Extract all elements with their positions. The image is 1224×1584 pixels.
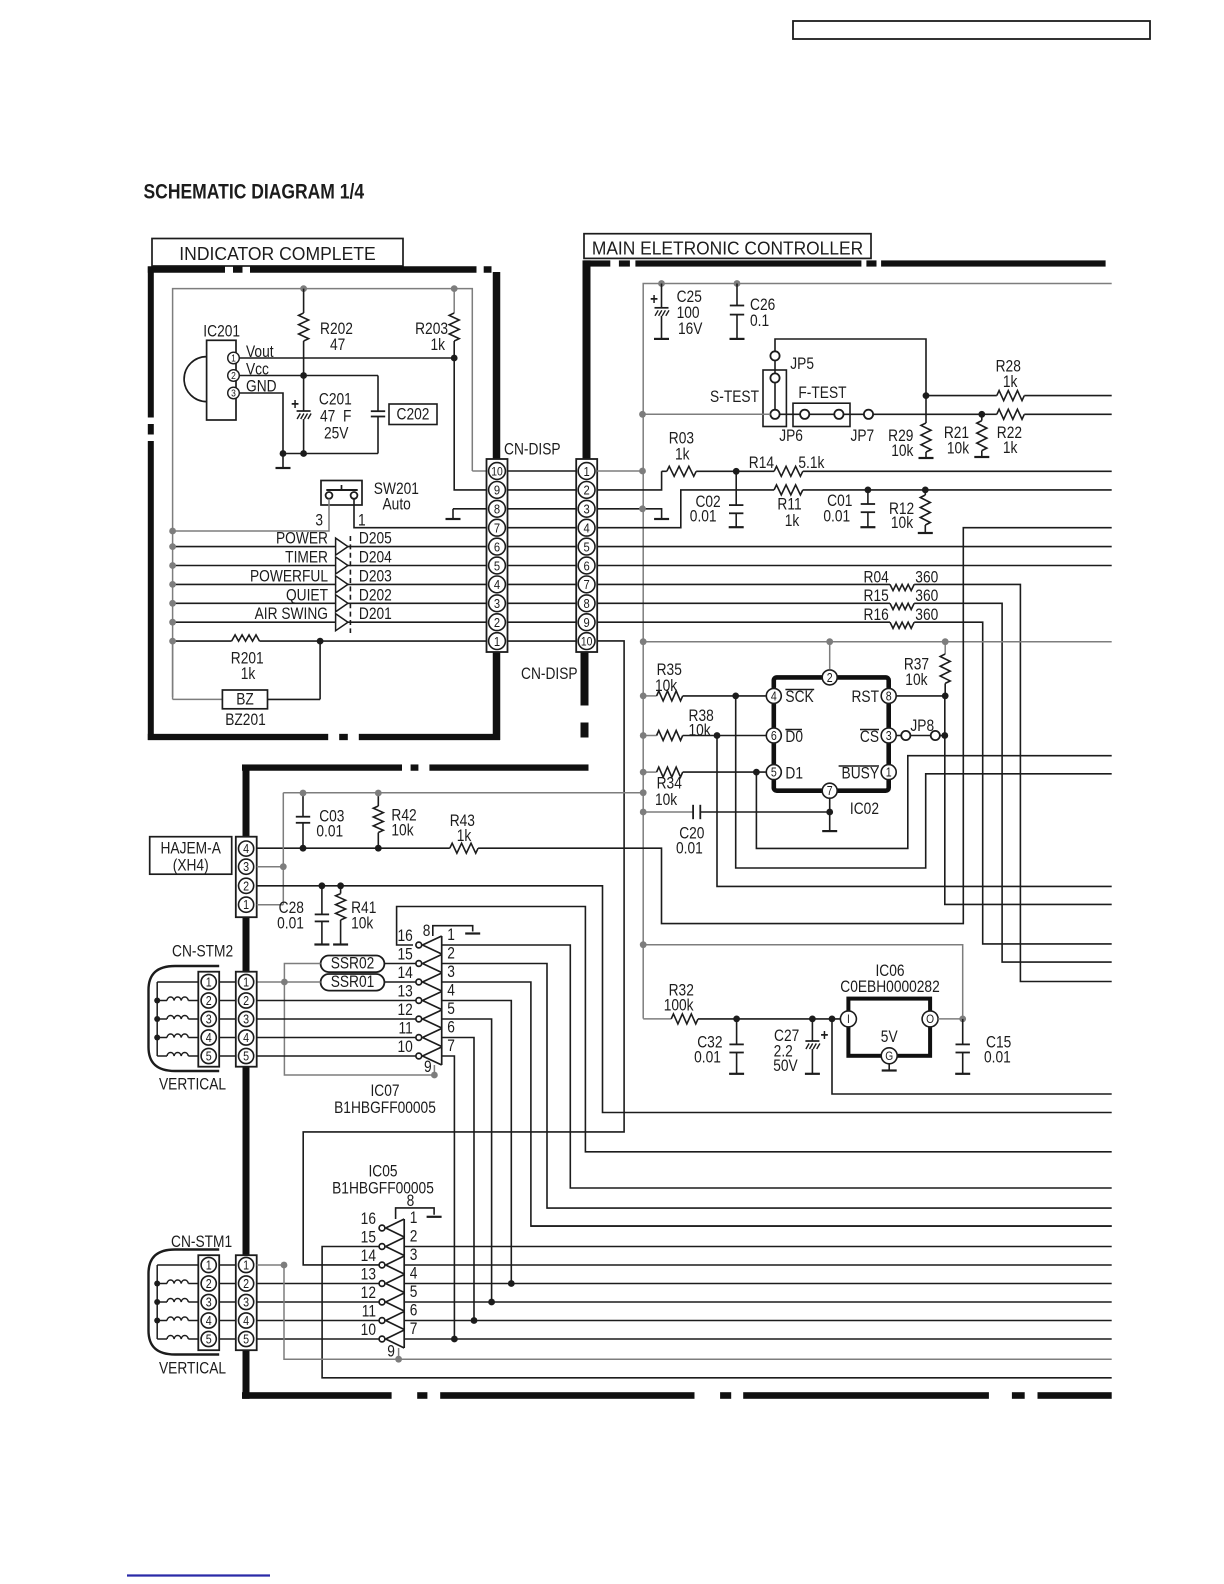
IC IC02 body	[774, 677, 889, 790]
svg-text:C202: C202	[397, 405, 430, 423]
junction dot grey bus SW201 row	[169, 528, 176, 535]
svg-text:10k: 10k	[891, 514, 914, 532]
svg-text:AIR SWING: AIR SWING	[255, 605, 328, 623]
wire SSR01 to IC07 pin14	[384, 981, 416, 983]
svg-text:5V: 5V	[881, 1028, 898, 1046]
HAJEM-A pin 4	[239, 841, 254, 856]
svg-text:2: 2	[243, 1277, 249, 1291]
jumper JP7	[864, 410, 873, 419]
svg-text:D205: D205	[359, 530, 392, 548]
CN-DISP right pin 9	[578, 614, 595, 631]
junction dot grey bus IC02 pin2	[826, 638, 833, 645]
grey wire SSR01 left / CN-STM2 pin1 row	[257, 981, 321, 983]
capacitor C15	[962, 1019, 964, 1045]
INDICATOR boundary left bar	[148, 267, 154, 418]
IC07 output 2 wire	[442, 964, 1112, 1209]
resistor R203	[453, 289, 455, 313]
svg-text:0.01: 0.01	[823, 508, 850, 526]
svg-text:CN-STM2: CN-STM2	[172, 942, 233, 960]
resistor R35	[643, 695, 656, 697]
svg-text:5: 5	[410, 1283, 418, 1301]
svg-text:CN-DISP: CN-DISP	[521, 665, 578, 683]
svg-text:10k: 10k	[391, 822, 414, 840]
CN-DISP left pin 10	[489, 463, 506, 480]
CN-DISP right pin 6	[578, 557, 595, 574]
CN-STM2 inner pin 3	[201, 1011, 216, 1026]
MAIN ELETRONIC CONTROLLER label box	[584, 234, 871, 259]
svg-text:D0: D0	[785, 728, 803, 746]
junction dot Vcc/R202	[300, 372, 307, 379]
CN-STM2 inner pin 5	[201, 1048, 216, 1063]
coil winding CN-STM1 row	[157, 1338, 167, 1340]
HAJEM-A pin 2	[239, 878, 254, 893]
svg-text:D201: D201	[359, 605, 392, 623]
footer blue line	[127, 1574, 270, 1576]
IC05 output 6 wire	[404, 1320, 1111, 1322]
junction dot IC05 pin9 grey	[395, 1356, 402, 1363]
svg-text:5: 5	[583, 539, 589, 554]
resistor R22	[997, 409, 1024, 419]
junction dot CN-STM2 coil common	[154, 1016, 160, 1022]
svg-text:B1HBGFF00005: B1HBGFF00005	[332, 1179, 434, 1197]
svg-text:MAIN ELETRONIC CONTROLLER: MAIN ELETRONIC CONTROLLER	[592, 238, 863, 259]
svg-text:QUIET: QUIET	[286, 586, 328, 604]
svg-text:3: 3	[315, 511, 323, 529]
wire SSR02 to IC07 pin15	[384, 963, 416, 965]
svg-text:1: 1	[206, 976, 212, 990]
svg-text:BUSY: BUSY	[842, 764, 879, 782]
CN-DISP right pin 1	[578, 463, 595, 480]
svg-text:9: 9	[424, 1058, 432, 1076]
IC201 pin 1	[228, 352, 240, 364]
svg-text:5: 5	[206, 1333, 212, 1347]
wire IC201 pin3 GND down	[239, 393, 283, 468]
svg-text:POWERFUL: POWERFUL	[250, 567, 328, 585]
wire JP5 loop to R28 node	[775, 339, 926, 396]
svg-text:D1: D1	[785, 764, 803, 782]
svg-text:10: 10	[397, 1038, 412, 1056]
svg-text:C0EBH0000282: C0EBH0000282	[840, 978, 939, 996]
junction dot D1 net	[753, 769, 760, 776]
junction dot JP8/CS net	[941, 732, 948, 739]
resistor R15	[597, 602, 890, 604]
wire HAJEM pin4 row / R43 net	[257, 847, 450, 849]
grey wire SSR02 left	[284, 964, 320, 983]
CN-DISP right pin 10	[578, 633, 595, 650]
resistor R16	[597, 621, 890, 623]
grey wire HAJEM ground row	[283, 792, 643, 794]
svg-text:JP5: JP5	[790, 355, 814, 373]
svg-text:7: 7	[827, 784, 833, 798]
coil winding CN-STM1 row	[157, 1301, 167, 1303]
connector CN-DISP (controller side)	[576, 459, 597, 652]
resistor R12	[924, 490, 926, 495]
coil winding CN-STM2 row	[157, 1037, 167, 1039]
junction dot grey vertical pin1 row	[639, 468, 646, 475]
svg-text:13: 13	[397, 982, 412, 1000]
wire D0 net routing	[717, 736, 1112, 887]
capacitor C32	[736, 1019, 738, 1045]
IC02 pin 7	[822, 783, 837, 798]
HAJEM-A pin 1	[239, 897, 254, 912]
svg-text:Auto: Auto	[383, 495, 411, 513]
IC201 pin 2	[228, 370, 240, 382]
svg-text:I: I	[847, 1014, 850, 1027]
svg-text:6: 6	[583, 558, 589, 573]
CN-STM2 border pin 5	[239, 1048, 254, 1063]
IC02 pin 3	[881, 728, 896, 743]
svg-text:1k: 1k	[785, 512, 800, 530]
svg-text:8: 8	[423, 922, 431, 940]
IC07 output 4 wire	[442, 1001, 512, 1284]
svg-text:2: 2	[231, 370, 236, 381]
CN-DISP left pin 5	[489, 557, 506, 574]
svg-text:BZ: BZ	[236, 690, 254, 708]
wire CN-STM1 pin 4 link	[219, 1320, 236, 1322]
svg-text:1k: 1k	[241, 665, 256, 683]
svg-text:3: 3	[583, 502, 589, 517]
svg-text:10k: 10k	[351, 914, 374, 932]
svg-text:9: 9	[494, 483, 500, 498]
wire CN-STM2 pin 5 link	[219, 1055, 236, 1057]
wire IC02 pin2 to grey bus	[829, 642, 831, 670]
wire CN-STM2 pin 1 link	[219, 981, 236, 983]
svg-text:0.01: 0.01	[984, 1048, 1011, 1066]
junction dot GND row left	[280, 450, 287, 457]
svg-text:2: 2	[447, 945, 455, 963]
svg-text:BZ201: BZ201	[225, 711, 266, 729]
junction dot C28	[319, 882, 326, 889]
resistor R201	[173, 640, 232, 642]
junction dot CN-STM1 coil common	[154, 1318, 160, 1324]
CN-DISP left pin 1	[489, 633, 506, 650]
CN-STM2 border pin 4	[239, 1030, 254, 1045]
junction dot IC07 pin9 grey	[431, 1072, 438, 1079]
svg-text:50V: 50V	[773, 1057, 798, 1075]
resistor R202	[303, 289, 305, 313]
resistor R28	[926, 395, 997, 397]
INDICATOR boundary right bar (CN-DISP column)	[493, 272, 501, 459]
svg-text:JP6: JP6	[779, 427, 803, 445]
IC05 output 4 wire	[404, 1283, 1111, 1285]
CN-DISP left pin 7	[489, 519, 506, 536]
svg-text:CN-DISP: CN-DISP	[504, 440, 561, 458]
junction dot R21/R22 node	[978, 411, 985, 418]
svg-text:3: 3	[243, 1013, 249, 1027]
svg-text:8: 8	[583, 596, 589, 611]
svg-text:C201: C201	[319, 390, 352, 408]
svg-text:R16: R16	[864, 606, 889, 624]
svg-text:1: 1	[243, 1259, 249, 1273]
svg-text:D203: D203	[359, 567, 392, 585]
svg-text:360: 360	[915, 568, 938, 586]
CN-DISP right pin 8	[578, 595, 595, 612]
svg-text:O: O	[926, 1014, 934, 1027]
MAIN boundary bar below right CN-DISP	[581, 652, 589, 706]
svg-text:3: 3	[886, 729, 892, 743]
junction dot R42	[375, 845, 382, 852]
LED D205 (POWER) row wire	[173, 546, 487, 548]
wire SW201 pin3 to grey bus	[173, 499, 329, 531]
coil winding CN-STM2 row	[157, 1018, 167, 1020]
capacitor C202	[371, 410, 385, 412]
junction dot grey bus left	[640, 638, 647, 645]
resistor R03	[597, 471, 661, 490]
MAIN boundary horizontal jog bar	[242, 764, 402, 770]
capacitor C01	[867, 490, 869, 504]
junction dot C15 grey	[959, 1016, 966, 1023]
svg-text:1k: 1k	[1003, 439, 1018, 457]
svg-text:5: 5	[243, 1333, 249, 1347]
wire IC201 pin2 Vcc loop with C202	[239, 375, 378, 377]
CN-DISP left pin 9	[489, 482, 506, 499]
capacitor C28	[321, 886, 323, 915]
svg-text:6: 6	[410, 1302, 418, 1320]
junction dot D0 net	[714, 732, 721, 739]
svg-text:11: 11	[399, 1019, 413, 1037]
svg-text:IC201: IC201	[203, 322, 240, 340]
junction dot C03	[300, 845, 307, 852]
junction dot C32	[733, 1016, 740, 1023]
svg-text:6: 6	[447, 1019, 455, 1037]
svg-text:JP8: JP8	[910, 717, 934, 735]
svg-text:360: 360	[915, 606, 938, 624]
INDICATOR COMPLETE label box	[152, 239, 403, 267]
svg-text:47 F: 47 F	[320, 407, 351, 425]
jumper F-TEST box	[793, 403, 850, 426]
svg-text:47: 47	[330, 336, 345, 354]
grey wire CN-STM1 pin1 stub	[257, 1264, 284, 1266]
junction dot grey vertical R35 row	[640, 693, 647, 700]
svg-text:7: 7	[494, 521, 500, 536]
svg-text:7: 7	[410, 1320, 418, 1338]
connector CN-DISP (indicator side)	[487, 459, 508, 652]
svg-text:1: 1	[243, 898, 249, 912]
svg-text:8: 8	[886, 690, 892, 704]
LED D203 triangle	[336, 576, 348, 593]
C202 label box	[389, 404, 437, 425]
svg-text:1: 1	[410, 1209, 418, 1227]
svg-text:TIMER: TIMER	[285, 548, 328, 566]
junction dot grey vertical S-TEST row	[639, 411, 646, 418]
svg-text:3: 3	[243, 860, 249, 874]
junction dot C201 bottom	[300, 450, 307, 457]
svg-text:14: 14	[397, 964, 412, 982]
junction dot CN-STM1 coil common	[154, 1299, 160, 1305]
wires CN-STM1 rows to IC05	[257, 1283, 380, 1285]
junction dot HAJEM pin3 grey	[280, 863, 287, 870]
MAIN boundary top bar	[584, 260, 611, 266]
wires CN-STM2 rows to IC07	[257, 1000, 416, 1002]
svg-text:16V: 16V	[678, 320, 703, 338]
LED D204 (TIMER) row wire	[173, 565, 487, 567]
capacitor C26	[736, 284, 738, 306]
junction dot C25 on rail	[658, 280, 665, 287]
CN-STM2 border pin 3	[239, 1011, 254, 1026]
wire CN-DISP right pin10 to IC05 pin14 loop	[303, 641, 624, 1265]
wire CS net down and right	[945, 696, 1112, 905]
CN-STM1 border pin 4	[239, 1313, 254, 1328]
svg-text:1: 1	[494, 634, 500, 649]
svg-text:4: 4	[206, 1031, 212, 1045]
jumper JP8	[897, 735, 902, 737]
svg-text:G: G	[885, 1050, 893, 1063]
junction dot CN-STM1 coil common	[154, 1281, 160, 1287]
CN-DISP left pin 3	[489, 595, 506, 612]
svg-text:SCK: SCK	[785, 688, 813, 706]
svg-text:16: 16	[397, 927, 412, 945]
grey wire IC06 surround	[643, 945, 963, 1019]
CN-DISP left pin 4	[489, 576, 506, 593]
wire CN-DISP right pin1 row (grey)	[597, 470, 642, 472]
CN-STM1 border pin 2	[239, 1276, 254, 1291]
svg-text:10k: 10k	[655, 677, 678, 695]
relay signal oval SSR02	[321, 956, 385, 973]
CN-STM2 common wire	[156, 982, 158, 1056]
ground at CN-DISP pin8 row (left)	[453, 508, 487, 510]
junction dot grey vertical IC06 corner	[640, 941, 647, 948]
junction dot CN-STM2 coil common	[154, 1035, 160, 1041]
junction dot C26 on rail	[734, 280, 741, 287]
CN-STM1 inner pin 1	[201, 1257, 216, 1272]
CN-DISP right pin 7	[578, 576, 595, 593]
svg-text:9: 9	[583, 615, 589, 630]
CN-STM2 inner pin 1	[201, 974, 216, 989]
title block box (empty)	[793, 21, 1150, 39]
INDICATOR boundary bottom bar	[148, 734, 328, 740]
svg-text:D202: D202	[359, 586, 392, 604]
junction dot R42 top grey	[375, 790, 382, 797]
svg-text:14: 14	[361, 1247, 376, 1265]
wire HAJEM pin2 row	[257, 886, 1112, 1113]
junction dot RST/R37	[942, 693, 949, 700]
wire CN-STM1 pin 5 link	[219, 1338, 236, 1340]
junction dot grey vertical R38 row	[640, 732, 647, 739]
junction dot grey bus R37	[942, 638, 949, 645]
HAJEM-A pin 3	[239, 859, 254, 874]
svg-text:4: 4	[243, 842, 249, 856]
svg-text:0.01: 0.01	[676, 839, 703, 857]
wire CN-STM2 pin 4 link	[219, 1037, 236, 1039]
IC07 output 5 wire	[442, 1019, 492, 1302]
svg-text:5: 5	[494, 558, 500, 573]
IC02 pin 2	[822, 670, 837, 685]
svg-text:15: 15	[361, 1228, 376, 1246]
CN-STM1 common wire	[156, 1265, 158, 1339]
svg-text:3: 3	[494, 596, 500, 611]
IC02 pin 6	[766, 728, 781, 743]
grey ground bus across MAIN	[643, 641, 1111, 643]
resistor R42	[377, 793, 379, 806]
svg-text:SSR02: SSR02	[331, 954, 375, 972]
CN-DISP right pin 3	[578, 500, 595, 517]
junction dot C27	[809, 1016, 816, 1023]
svg-text:12: 12	[397, 1001, 412, 1019]
CN-DISP left pin 8	[489, 500, 506, 517]
CN-STM2 border pin 2	[239, 993, 254, 1008]
svg-text:11: 11	[362, 1302, 376, 1320]
IC05 output 3 wire	[404, 1264, 1111, 1266]
junction dot IC06 input branch	[829, 1016, 836, 1023]
junction dot grey bus R201 row	[169, 638, 176, 645]
IC06 pin G	[881, 1048, 897, 1064]
junction dot grey bus POWER row	[169, 543, 176, 550]
LED cathode dashed bar	[349, 536, 351, 633]
junction dot Vout/R203	[451, 355, 458, 362]
junction dot grey vertical C20 row	[640, 809, 647, 816]
ground symbol below IC201	[276, 467, 291, 469]
coil winding CN-STM2 row	[157, 1055, 167, 1057]
jumper JP6 box (S-TEST)	[763, 370, 786, 427]
svg-text:HAJEM-A: HAJEM-A	[160, 839, 221, 857]
IC07 output 3 wire	[442, 982, 1112, 1226]
wire grey rail to CN-DISP pin10	[472, 470, 486, 472]
connector HAJEM-A (XH4) label box	[150, 837, 232, 875]
connector CN-STM1 outer shell	[149, 1250, 220, 1355]
wire CN-STM1 pin 1 link	[219, 1264, 236, 1266]
junction dot R41	[337, 882, 344, 889]
CN-STM2 border pin 1	[239, 974, 254, 989]
svg-text:4: 4	[206, 1314, 212, 1328]
svg-text:10: 10	[491, 466, 503, 479]
junction dot R203 top on rail	[451, 285, 458, 292]
svg-text:INDICATOR COMPLETE: INDICATOR COMPLETE	[179, 243, 375, 264]
MAIN boundary bottom bar	[242, 1392, 392, 1399]
svg-text:10k: 10k	[947, 440, 970, 458]
wire RST to R37	[897, 695, 946, 697]
IC07 pin 9 lead	[433, 1065, 435, 1075]
svg-text:1: 1	[583, 464, 589, 479]
CN-DISP right pin 5	[578, 538, 595, 555]
driver array IC05	[403, 1219, 405, 1348]
grey wire HAJEM pin3/pin1	[257, 866, 284, 868]
resistor R32	[643, 1018, 671, 1020]
IC05 output row 1 wire	[531, 1225, 1112, 1227]
junction dot IC07 out7 to IC05 out7	[451, 1336, 458, 1343]
junction dot R28 node	[923, 392, 930, 399]
IC02 pin 4	[766, 688, 781, 703]
svg-text:3: 3	[206, 1013, 212, 1027]
CN-STM2 inner pin 4	[201, 1030, 216, 1045]
svg-text:16: 16	[361, 1210, 376, 1228]
IC201 pin 3	[228, 387, 240, 399]
junction dot grey bus POWERFUL row	[169, 581, 176, 588]
svg-text:5: 5	[243, 1050, 249, 1064]
wire D1 net routing	[756, 756, 1111, 849]
svg-text:RST: RST	[851, 688, 879, 706]
wire CN-DISP right pin6 row	[597, 565, 1111, 567]
svg-text:15: 15	[397, 945, 412, 963]
CN-DISP left pin 2	[489, 614, 506, 631]
svg-text:+: +	[650, 291, 658, 308]
svg-text:10k: 10k	[689, 721, 712, 739]
MAIN boundary left bar upper (CN-DISP column)	[583, 260, 591, 459]
CN-STM1 inner pin 3	[201, 1294, 216, 1309]
svg-text:5: 5	[771, 766, 777, 780]
svg-text:4: 4	[447, 982, 455, 1000]
junction dot R03/R14/C02	[733, 468, 740, 475]
CN-DISP right pin 4	[578, 519, 595, 536]
wire SCK net routing	[736, 696, 1112, 868]
CN-STM1 border pin 5	[239, 1331, 254, 1346]
svg-text:POWER: POWER	[276, 530, 328, 548]
svg-text:10: 10	[361, 1321, 376, 1339]
IC05 pin 8 notch and ground	[396, 1208, 435, 1219]
coil winding CN-STM2 row	[157, 1000, 167, 1002]
svg-text:5: 5	[447, 1000, 455, 1018]
resistor R04	[597, 583, 890, 585]
CN-STM1 border pin 3	[239, 1294, 254, 1309]
